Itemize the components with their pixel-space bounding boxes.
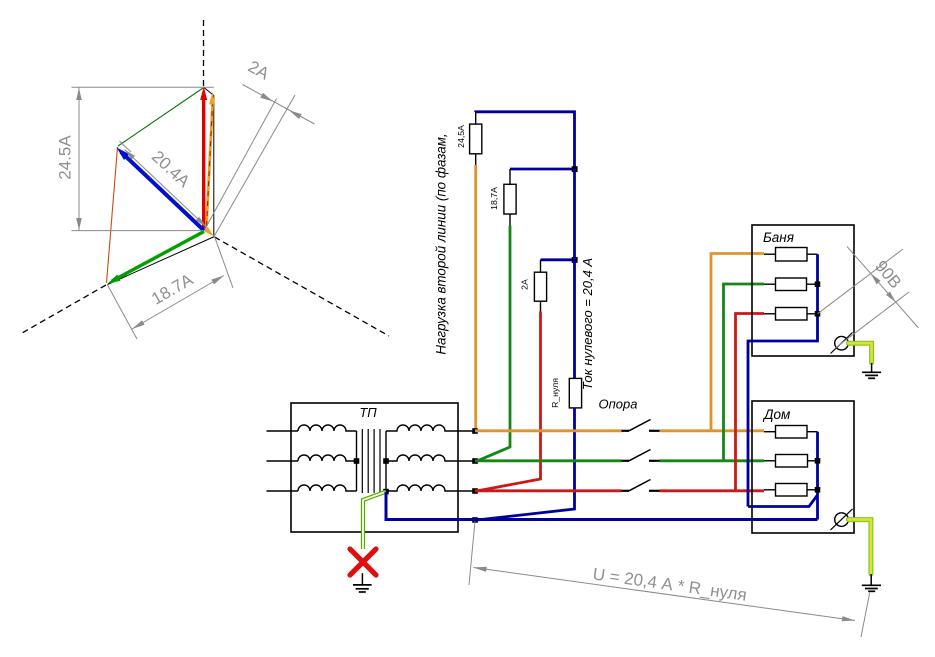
box TP [291, 403, 458, 532]
dimension 24.5A line [78, 87, 80, 230]
resistor banya R1 [776, 248, 808, 262]
junction dot primary [354, 458, 360, 464]
svg-text:24.5A: 24.5A [56, 135, 75, 180]
dimension 90V line [847, 247, 919, 329]
junction dot secondary low [383, 489, 389, 495]
lead stub bottom R 24,5A [475, 154, 477, 165]
wire red branch up to Banya [736, 314, 765, 491]
junction dot phase C [472, 488, 478, 494]
switch B [622, 460, 630, 462]
dimension U extension 1 [469, 521, 475, 585]
primary winding B [298, 455, 357, 461]
dimension U line [474, 568, 856, 621]
secondary winding B [386, 455, 474, 461]
vector orange (dashed overlay) [207, 98, 213, 226]
wire orange phase A to Dom [660, 429, 765, 432]
wire green drop from 18,7A [478, 226, 511, 461]
resistor banya R3 [776, 308, 808, 321]
resistor dom R2 [776, 455, 808, 468]
svg-text:Нагрузка второй линии (по фаза: Нагрузка второй линии (по фазам, [434, 133, 449, 354]
PE wire yellow-green dom [848, 520, 871, 574]
dimension 90V extension 1 [818, 249, 904, 314]
broken earth X mark [350, 549, 376, 575]
lead stub top R 24,5A [475, 112, 477, 124]
junction dot phase A [472, 428, 478, 434]
wire blue below R_nulya to neutral bus [477, 408, 575, 520]
junction dot banya R2 [815, 281, 821, 287]
switch C [622, 490, 630, 492]
wire red phase C to switch [475, 489, 622, 492]
wire blue banya neutral loop [748, 254, 818, 506]
construction line thin green: red tip to blue tip [118, 88, 203, 146]
junction dot banya R3 [815, 311, 821, 317]
svg-text:2А: 2А [520, 279, 530, 290]
resistor dom R3 [776, 484, 808, 497]
ground banya [871, 363, 873, 372]
svg-text:Ток нулевого = 20,4 А: Ток нулевого = 20,4 А [580, 258, 595, 390]
input stub C [267, 490, 299, 492]
secondary winding C [386, 485, 474, 491]
input stub A [267, 430, 299, 432]
dimension 18.7A line [132, 276, 224, 330]
wire orange drop from 24,5A [474, 165, 477, 431]
PE terminal circle dom [835, 513, 849, 527]
wire red drop from 2A [478, 312, 541, 491]
construction edge: origin to green tip [108, 237, 215, 285]
phase axis down-left (dashed) [22, 285, 106, 333]
box Dom [752, 401, 854, 533]
PE wire green double from star point [363, 492, 386, 549]
vector orange arrowhead top [209, 92, 215, 105]
svg-text:18,7А: 18,7А [489, 187, 499, 210]
wire blue bus 2 [510, 168, 575, 171]
dimension 20.4A tick near blue tip [120, 141, 132, 152]
primary winding C [298, 485, 357, 491]
dimension 18.7A extension 2 [215, 237, 234, 289]
dimension U extension 2 [861, 592, 870, 637]
input stub B [267, 460, 299, 462]
junction dot dom R3 [815, 487, 821, 493]
phase axis vertical (dashed) [203, 20, 205, 87]
secondary star bus [385, 431, 387, 492]
construction line thin red-orange: blue tip to green tip [107, 147, 118, 283]
vector blue (neutral 20.4A) [121, 152, 204, 231]
wire orange branch up to Banya [711, 254, 764, 431]
dimension 2A line [243, 85, 315, 125]
resistor dom R1 [776, 426, 808, 439]
wire blue dom link to banya loop [748, 495, 818, 507]
construction edge: right vertical of triangle [213, 96, 215, 236]
wire blue top bus [476, 112, 575, 169]
junction dot [572, 257, 578, 263]
svg-text:ТП: ТП [359, 405, 377, 420]
dimension 24.5A extension bottom [72, 230, 204, 232]
wire blue neutral from star point [386, 492, 818, 520]
dimension 24.5A extension top [72, 86, 214, 88]
phase axis down-right (dashed) [215, 237, 390, 336]
lead stub top R 18,7A [509, 169, 511, 184]
svg-text:Баня: Баня [763, 230, 794, 245]
switch A [622, 430, 630, 432]
wire orange phase A to switch [475, 429, 622, 432]
lead stub top R 2A [540, 260, 542, 272]
ground below X [361, 573, 363, 584]
dimension 2A extension 1 [205, 99, 277, 230]
vector green (phase B) [112, 232, 204, 282]
junction dot [572, 166, 578, 172]
svg-text:R_нуля: R_нуля [550, 378, 560, 408]
svg-text:24,5А: 24,5А [456, 125, 466, 148]
dimension 18.7A extension 1 [108, 285, 138, 339]
primary winding A [298, 425, 357, 431]
wire blue vertical to R_nulya [573, 169, 576, 378]
core lines [361, 429, 363, 493]
lead stub bottom R 18,7A [509, 214, 511, 226]
wire green phase B to Dom [660, 459, 765, 462]
resistor 18,7A [504, 184, 516, 214]
wire blue bus 3 [541, 258, 575, 261]
dimension 90V extension 2 [835, 292, 909, 348]
PE wire yellow-green banya [848, 343, 871, 362]
resistor banya R2 [776, 278, 807, 291]
junction dot secondary mid [383, 458, 389, 464]
dimension 2A extension 2 [214, 95, 295, 237]
junction dot dom R2 [815, 458, 821, 464]
construction edge: top short [203, 87, 214, 96]
wire red phase C to Dom [660, 489, 765, 492]
PE terminal circle banya [835, 336, 849, 350]
lead stub bottom R 2A [540, 301, 542, 311]
wire green branch up to Banya [724, 284, 765, 461]
svg-text:Опора: Опора [599, 396, 638, 411]
vector red (phase A) [202, 97, 205, 228]
secondary winding A [386, 425, 474, 431]
dimension 20.4A line [125, 150, 207, 227]
wire green phase B to switch [475, 459, 622, 462]
junction dot phase B [472, 458, 478, 464]
wire blue dom right vertical [816, 432, 819, 520]
ground dom [870, 574, 872, 585]
resistor 24,5A [470, 124, 482, 154]
resistor R_nulya [569, 378, 581, 408]
junction dot neutral [472, 517, 478, 523]
resistor 2A [534, 272, 546, 301]
box Banya [752, 225, 854, 356]
primary star bus [356, 431, 358, 491]
svg-text:Дом: Дом [762, 407, 790, 422]
vector orange arrowhead bottom at origin [204, 227, 214, 237]
